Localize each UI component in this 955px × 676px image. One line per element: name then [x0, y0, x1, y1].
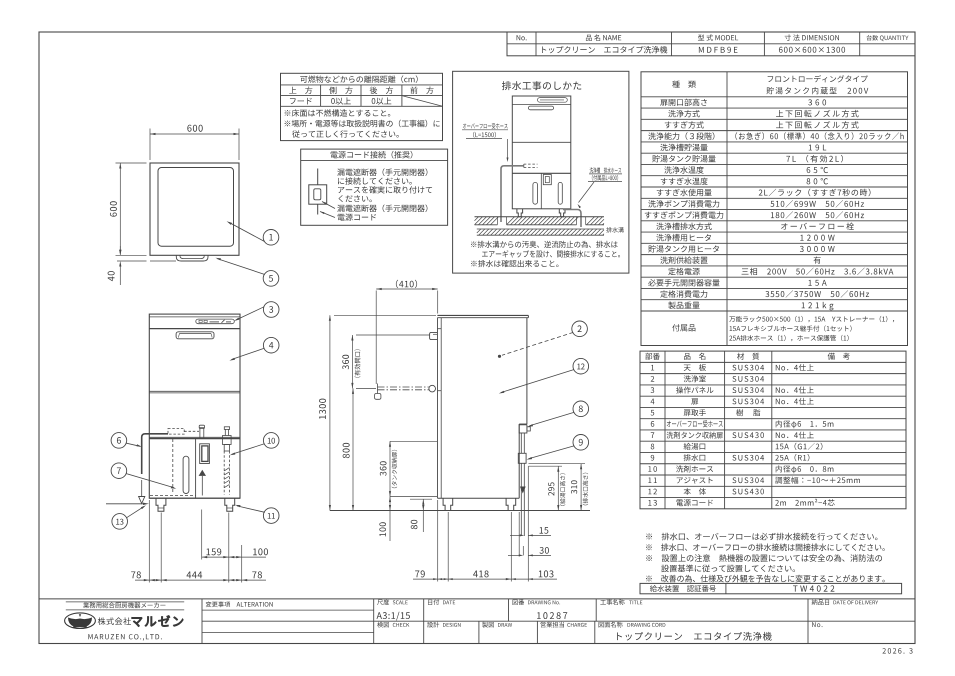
spec row: すすぎ水温度: [661, 178, 828, 185]
plan dim 600 width: [150, 125, 239, 160]
parts row 9: [651, 454, 810, 461]
spec row: 扉開口部高さ: [660, 99, 826, 106]
parts row 11: [648, 477, 860, 484]
side door handle edge: [430, 332, 437, 339]
spec row: 洗浄方式: [668, 110, 858, 117]
side door open position: [375, 384, 436, 400]
rinse pump assembly dashed: [223, 427, 232, 495]
overflow hose label: [462, 123, 509, 162]
spec row: 洗剤供給装置: [660, 256, 820, 263]
delivery date cell: [812, 599, 878, 605]
side dim 80: [410, 499, 432, 532]
drain outlet fitting: [518, 433, 526, 536]
front dim extension lines: [149, 500, 241, 583]
side dim 360 tank door: [380, 441, 437, 541]
power cord connection box: [301, 149, 448, 225]
spec row: 洗浄槽排水方式: [656, 223, 854, 230]
overflow hose run: [501, 166, 524, 222]
overflow hose connector: [524, 164, 538, 167]
side dim 100 legs: [379, 497, 391, 537]
parts row 13: [648, 499, 834, 506]
plan view inner tank: [158, 168, 234, 247]
detergent pump body: [200, 444, 210, 464]
construction title cell: [600, 599, 642, 605]
spec row: 洗浄ポンプ消費電力: [648, 200, 864, 207]
parts row 3: [651, 387, 814, 394]
side dim 1300: [319, 315, 436, 510]
front dim 78 444 78: [131, 571, 266, 581]
parts row 6: [651, 420, 834, 428]
balloon 5 with leader: [215, 258, 278, 287]
breaker symbol: [309, 169, 327, 215]
drain mini machine logo plate: [538, 98, 568, 103]
parts row 7: [651, 432, 814, 439]
parts row 4: [651, 398, 814, 405]
date cell: [428, 599, 455, 605]
maker column: slogan: [66, 602, 184, 610]
drawing number cell: [513, 599, 568, 619]
front legs: [156, 498, 235, 511]
spec row: すすぎ水使用量: [657, 189, 871, 197]
overflow hose front: [139, 429, 199, 504]
front dim 159 and 100: [202, 548, 268, 558]
top table values: name, model, dimension: [542, 46, 845, 53]
spec table grid: [641, 72, 908, 346]
issue date 2026.3: [882, 648, 912, 653]
scale cell: [377, 599, 410, 620]
plan dim 40: [108, 246, 176, 285]
parts row 10: [648, 465, 833, 473]
side dim 360 opening: [342, 335, 430, 388]
breaker label with leader: [322, 202, 427, 213]
spec row: 貯湯タンク用ヒータ: [648, 245, 834, 252]
spec row: 種類: [672, 75, 868, 94]
plan view handle recess: [176, 255, 208, 261]
title block grid: [39, 599, 915, 644]
plan dim 600 height: [110, 163, 147, 255]
parts row 1: [651, 364, 814, 371]
spec row: 洗浄槽貯湯量: [660, 144, 826, 151]
number cell: [812, 622, 822, 627]
flammables diagonal slash: [402, 96, 443, 107]
check cell: [377, 622, 409, 628]
charge cell: [541, 622, 587, 628]
balloon 11 with leader: [235, 505, 279, 523]
drain mini machine outline: [512, 96, 571, 209]
balloon 8 with leader: [528, 401, 589, 427]
balloon 9 with leader: [527, 435, 589, 460]
maruzen logo text: [88, 616, 183, 641]
notes about drainage and installation: [646, 533, 885, 583]
spec row: 製品重量: [668, 302, 833, 311]
spec row: 必要手元開閉器容量: [648, 279, 826, 286]
hot water inlet fitting: [519, 425, 530, 433]
spec row: すすぎ方式: [665, 121, 859, 128]
drain mini machine cabinet details: [533, 173, 562, 209]
balloon 3 with leader: [234, 302, 279, 321]
floor slab hatching: [475, 217, 605, 225]
drain work notes: [471, 241, 620, 267]
drain hose run: [563, 210, 581, 228]
spec row: 付属品 accessories: [672, 316, 894, 341]
side dim 79 418 103: [413, 570, 557, 580]
spec row: 洗浄水温度: [664, 166, 828, 173]
power cord box instructions: [337, 168, 432, 202]
side dim 15: [510, 527, 551, 536]
front control panel logo plate: [196, 319, 235, 324]
cord label with leader: [320, 212, 376, 221]
draw cell: [482, 622, 512, 628]
front bottom edge: [149, 497, 240, 499]
balloon 1 with leader: [227, 221, 279, 245]
parts row header: [645, 353, 850, 360]
spec row: 貯湯タンク貯湯量: [652, 155, 843, 163]
balloon 12 with leader: [499, 358, 589, 393]
drain mini machine legs: [517, 209, 565, 217]
drawing name cell: [599, 622, 772, 641]
parts row 5: [651, 409, 761, 416]
balloon 6 with leader: [111, 433, 142, 449]
side dim 30: [508, 546, 551, 556]
detergent pump pipe: [199, 425, 204, 438]
side dim 310 drain height: [529, 464, 589, 511]
front view body outline: [149, 314, 240, 498]
detergent suction arrow: [199, 470, 206, 496]
side dim 295 gas height: [529, 466, 566, 510]
flammables table text: [289, 75, 433, 104]
parts row 12: [648, 488, 764, 495]
spec row: 洗浄槽用ヒータ: [656, 234, 834, 241]
top title table grid: [507, 32, 915, 56]
tank drain hose label: [578, 167, 623, 208]
side dim 800: [343, 388, 354, 510]
balloon 4 with leader: [229, 337, 279, 360]
balloon 13 with leader: [112, 505, 146, 529]
plan view outer square: [150, 163, 239, 255]
design cell: [427, 622, 460, 628]
alteration header: [206, 601, 273, 607]
drain mini machine door handle: [528, 106, 553, 110]
power cord box title: [331, 151, 413, 159]
parts table grid: [640, 351, 906, 509]
drain channel label: [606, 227, 624, 233]
front door handle: [176, 332, 214, 339]
drain trench hatching: [477, 229, 604, 235]
side dim 410 top: [376, 280, 438, 384]
flammables clearance box: [281, 73, 443, 140]
water-supply certification table: [640, 583, 902, 593]
drain work title: [502, 81, 581, 90]
drain work box frame: [453, 71, 629, 273]
balloon 10 with leader: [230, 433, 279, 456]
maruzen logo mark: [65, 613, 96, 629]
top table headers: [517, 34, 909, 41]
side below-floor extension lines: [438, 466, 529, 581]
spec row: 定格電源: [668, 268, 893, 275]
parts row 8: [651, 443, 823, 450]
spec row: 洗浄能力（３段階）: [648, 132, 903, 140]
front lower cabinet details: [150, 439, 196, 499]
side view body outline: [437, 315, 528, 498]
spec row: 定格消費電力: [660, 290, 869, 297]
power cord front: [106, 503, 149, 505]
side floor baseline: [330, 510, 590, 512]
balloon 7 with leader: [111, 463, 176, 489]
balloon 2 with dashed leader: [498, 321, 587, 358]
side legs: [443, 498, 516, 510]
spec row: すすぎポンプ消費電力: [645, 211, 864, 218]
parts row 2: [651, 375, 764, 382]
flammables notes: [285, 109, 440, 137]
